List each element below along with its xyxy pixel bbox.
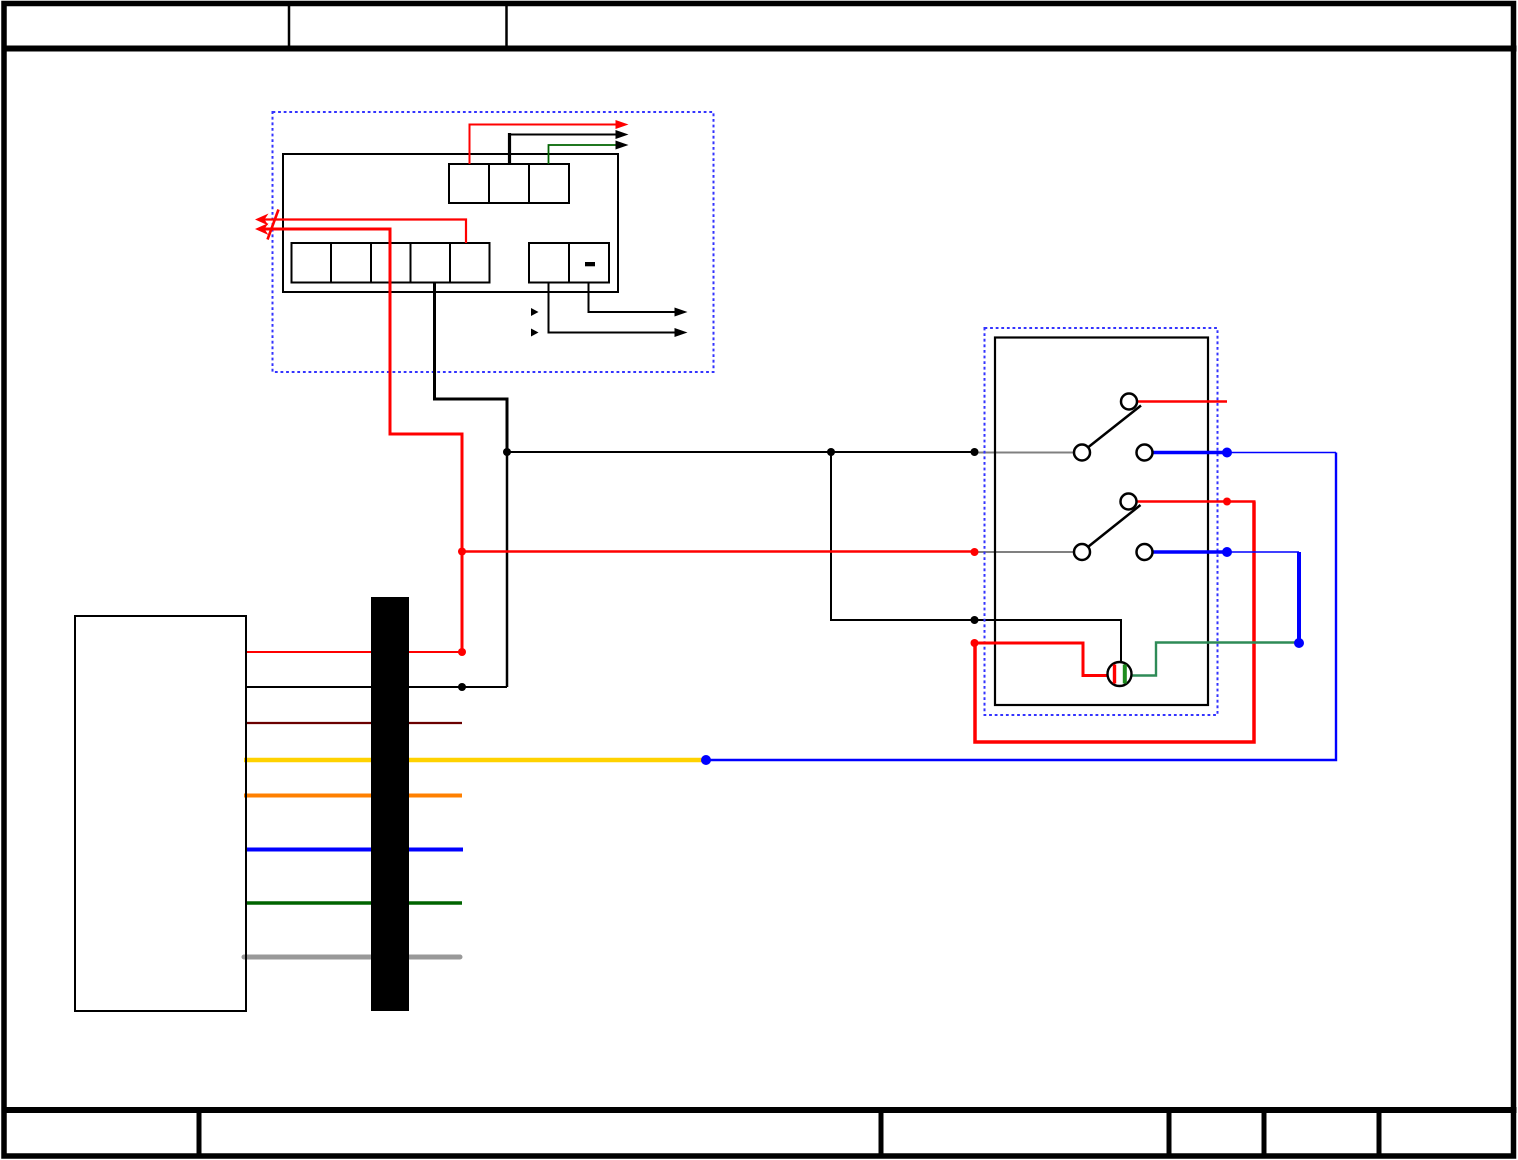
junction dot black lamp row <box>971 616 979 624</box>
wire gray <box>244 955 460 960</box>
wire blue switch1 NC thick <box>1153 451 1228 455</box>
wire red loop down <box>975 502 1254 743</box>
wire blue drop <box>1297 552 1301 643</box>
wire maroon <box>246 722 462 724</box>
junction dot black left <box>458 683 466 691</box>
wire blue <box>246 848 463 852</box>
wire orange <box>244 794 462 798</box>
wire red J1-1 to arrow <box>470 125 622 165</box>
wire red lamp feed <box>975 643 1108 676</box>
wire black from box <box>246 686 507 688</box>
wire black branch to lamp <box>831 452 1121 663</box>
wire red from box <box>246 651 462 653</box>
wire red switch1 NO out <box>1137 400 1227 403</box>
junction dot blue switch1 <box>1222 448 1232 458</box>
junction dot blue green node <box>1294 638 1304 648</box>
arrow black out <box>616 130 629 139</box>
junction dot black trunk <box>503 448 511 456</box>
component box left <box>75 616 246 1011</box>
switch S1 NO contact <box>1121 394 1137 410</box>
wire green J1-3 <box>549 145 622 164</box>
lamp L1 <box>1108 662 1132 686</box>
wire black J3-2 to arrow <box>589 282 680 312</box>
wire blue switch2 NC thick <box>1153 550 1228 554</box>
junction dot black branch <box>827 448 835 456</box>
arrow J3-2 <box>675 308 688 317</box>
junction dot blue yellow node <box>701 755 711 765</box>
arrow green out <box>616 141 629 150</box>
switch S1 blade <box>1089 406 1142 448</box>
junction dot black at relay <box>971 448 979 456</box>
junction dot red left <box>458 648 466 656</box>
switch S1 common contact <box>1074 445 1090 461</box>
junction dot red switch2 out <box>1223 498 1231 506</box>
wire red switch2 NO out <box>1137 500 1256 503</box>
switch S2 blade <box>1089 505 1141 547</box>
wire green lamp out <box>1131 643 1299 676</box>
junction dot red lamp row <box>971 639 979 647</box>
harness sleeve strip <box>371 597 409 1011</box>
wire black J1-2 vertical <box>508 133 511 164</box>
arrow off-page 1 <box>255 214 269 226</box>
wire gray stub switch 2 <box>976 551 1074 553</box>
minus label on J3 pin 2 <box>585 262 595 266</box>
wire black J2-4 down <box>435 282 508 453</box>
wire gray stub switch 1 <box>976 452 1074 454</box>
wire green <box>246 901 462 905</box>
ECU U1 body <box>283 154 618 292</box>
relay body <box>995 338 1208 706</box>
junction dot blue switch2 <box>1222 547 1232 557</box>
arrow red out <box>616 120 629 129</box>
wire black J1-2 horizontal <box>508 134 621 136</box>
wire red branch to switch 2 <box>462 550 976 553</box>
wire black J3-1 to arrow <box>549 282 680 333</box>
connector J2 (5-pin) <box>292 243 490 283</box>
switch S1 NC contact <box>1137 445 1153 461</box>
float arrow B <box>531 329 539 337</box>
switch S2 common contact <box>1074 544 1090 560</box>
wire black trunk down <box>506 452 509 687</box>
connector J3 (2-pin) <box>529 243 609 283</box>
wire black bus to switch 1 <box>507 451 976 453</box>
junction dot red at relay <box>971 548 979 556</box>
wire blue switch2 thin <box>1227 551 1299 553</box>
ECU dashed enclosure <box>273 112 714 372</box>
float arrow A <box>531 308 539 316</box>
relay dashed enclosure <box>985 328 1218 715</box>
junction dot red branch <box>458 548 466 556</box>
arrow J3-1 <box>675 328 688 337</box>
arrow off-page 2 <box>255 223 269 235</box>
switch S2 NC contact <box>1137 544 1153 560</box>
switch S2 NO contact <box>1121 494 1137 510</box>
wire red off-page thin to J2-5 <box>259 220 466 244</box>
connector J1 (3-pin) <box>449 164 569 203</box>
wire yellow <box>244 758 704 762</box>
wire red off-page thick through J2-3 <box>259 229 462 652</box>
wire blue switch1 thin loop <box>1227 452 1336 454</box>
off-page slash <box>268 210 279 240</box>
